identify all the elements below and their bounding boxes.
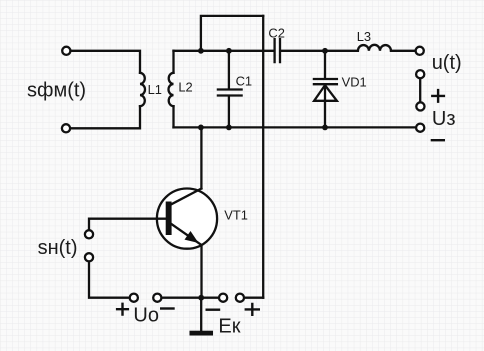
svg-text:Eк: Eк <box>218 316 240 338</box>
wire emitter down <box>200 245 202 298</box>
terminal u(t) bottom <box>416 70 424 78</box>
wire collector to tank <box>200 127 202 188</box>
terminal Uз top <box>416 102 424 110</box>
junction top rail at VD1 <box>322 48 328 54</box>
wire top rail C2 to L3 <box>281 50 358 52</box>
label plus Uo <box>117 304 128 315</box>
label plus Ek <box>246 304 259 315</box>
label minus Uo <box>161 307 173 309</box>
wire L1 bottom to input bottom terminal <box>71 106 141 128</box>
capacitor C2 <box>275 39 280 62</box>
terminal input bottom-left <box>62 124 70 132</box>
transistor VT1 <box>157 189 217 249</box>
ground <box>190 331 214 336</box>
wire top rail left section <box>174 50 274 52</box>
svg-text:sфм(t): sфм(t) <box>27 80 86 102</box>
junction emitter node <box>198 295 204 301</box>
svg-text:sн(t): sн(t) <box>38 237 78 259</box>
svg-text:u(t): u(t) <box>432 52 462 74</box>
svg-text:VT1: VT1 <box>224 207 248 222</box>
wire L3 to output terminal <box>391 50 415 52</box>
terminal u(t) top <box>416 47 424 55</box>
terminal Ek minus <box>219 294 227 302</box>
wire between u(t) and Uз terminals <box>419 79 421 102</box>
terminal Uo minus <box>153 294 161 302</box>
wire base to sн terminal <box>89 219 166 230</box>
inductor L3 <box>358 45 391 51</box>
junction top rail at C1 <box>226 48 232 54</box>
wire bypass top <box>201 16 263 51</box>
wire tank left bottom <box>172 106 174 127</box>
terminal sн top <box>85 230 93 238</box>
wire emitter node to ground <box>200 298 202 331</box>
junction bottom rail at VD1 <box>322 125 328 131</box>
junction bottom rail at C1 <box>226 125 232 131</box>
wire bypass vertical to bottom <box>262 16 264 298</box>
inductor L1 <box>140 73 145 106</box>
svg-text:C2: C2 <box>268 25 284 40</box>
capacitor C1 <box>218 90 242 96</box>
terminal Ek plus <box>236 294 244 302</box>
terminal input top-left <box>62 47 70 55</box>
junction bottom rail at collector <box>198 125 204 131</box>
wire input top to L1 <box>71 51 140 73</box>
diode VD1 <box>314 51 337 128</box>
label plus right <box>432 90 444 102</box>
wire tank left top <box>172 51 174 73</box>
svg-text:VD1: VD1 <box>342 75 367 90</box>
wire Ek plus to bypass <box>244 297 263 299</box>
wire bottom rail <box>174 126 416 128</box>
wire sн bottom to Uo terminal <box>89 262 129 298</box>
svg-text:Uз: Uз <box>432 108 456 130</box>
terminal Uз bottom <box>416 124 424 132</box>
svg-text:C1: C1 <box>236 73 252 88</box>
terminal sн bottom <box>85 253 93 261</box>
wire C1 branch bottom <box>228 97 230 128</box>
svg-text:L1: L1 <box>148 82 162 97</box>
label minus Ek <box>207 309 219 311</box>
svg-text:L3: L3 <box>357 29 371 44</box>
terminal Uo plus <box>130 294 138 302</box>
svg-text:L2: L2 <box>178 79 192 94</box>
label minus right <box>432 139 444 141</box>
wire C1 branch top <box>228 51 230 89</box>
junction top rail at bypass <box>198 48 204 54</box>
svg-text:Uo: Uo <box>133 305 159 327</box>
inductor L2 <box>169 73 174 106</box>
wire Uo to emitter node <box>162 297 219 299</box>
